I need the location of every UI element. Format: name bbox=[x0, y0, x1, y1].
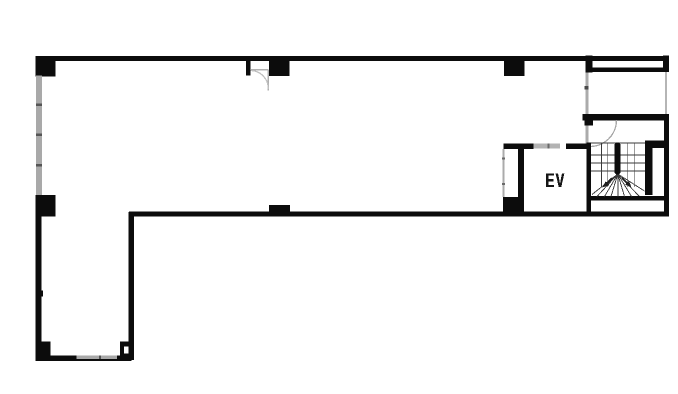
door D1 leaf bbox=[267, 70, 269, 91]
door stair swing arc bbox=[590, 120, 617, 147]
wall stair inner right bar bbox=[645, 140, 653, 195]
wall top (main, x36-669) bbox=[36, 56, 670, 61]
elevator top bar right black bbox=[566, 143, 588, 148]
window mullion tick 3 bbox=[36, 164, 42, 167]
duct tick 1 bbox=[502, 158, 505, 160]
elevator door gray segment bbox=[534, 144, 560, 149]
stair arrow left shaft bbox=[606, 178, 613, 184]
door jamb top wall bbox=[246, 60, 250, 75]
balcony right bar bbox=[663, 56, 669, 73]
notch in bottom-right pillar bbox=[124, 346, 129, 353]
block below duct bbox=[503, 197, 524, 212]
wall left lower wing bbox=[36, 217, 42, 342]
pillar wing bottom-right with notch bbox=[120, 342, 132, 362]
balcony top-right: left end block bbox=[585, 56, 592, 73]
stair arrow head left bbox=[603, 182, 610, 188]
wall stair left bbox=[587, 143, 592, 217]
block left end of stair top wall bbox=[585, 114, 594, 126]
stair arrow head right bbox=[625, 181, 631, 188]
elevator EV label (vector glyphs) bbox=[546, 173, 564, 187]
stair treads grid bbox=[591, 143, 645, 187]
tick on partition line bbox=[585, 86, 589, 90]
duct tick 2 bbox=[502, 183, 505, 185]
door D1 swing arc bbox=[251, 71, 269, 89]
wall long horizontal (y212) bbox=[129, 212, 669, 217]
wall stair bottom band bbox=[591, 196, 664, 201]
wall stair top bbox=[583, 114, 669, 121]
wall stub stair inner top-right bbox=[645, 140, 669, 148]
pillar right of top door bbox=[269, 60, 289, 76]
pillar left middle bbox=[36, 195, 56, 217]
window left wall (gray) bbox=[36, 76, 42, 196]
pillar on long wall bbox=[269, 205, 290, 212]
wall bottom of wing bbox=[36, 356, 132, 362]
pillar mid top wall (x504) bbox=[504, 60, 524, 76]
wall right of wing bbox=[129, 212, 135, 360]
window gray line right of top-right room bbox=[665, 72, 667, 114]
elevator shaft left wall bbox=[518, 149, 524, 212]
duct gray line left of elevator bbox=[503, 149, 505, 197]
balcony bottom bar bbox=[590, 67, 669, 72]
window mullion tick 2 bbox=[36, 134, 42, 137]
stair winder fan lines bbox=[592, 174, 645, 197]
wall joint tick left lower bbox=[41, 291, 43, 297]
elevator top bar left black bbox=[504, 143, 534, 148]
elevator door tick bbox=[548, 144, 550, 149]
door D1 lintel line bbox=[251, 69, 269, 71]
window mullion tick 1 bbox=[36, 104, 42, 107]
pillar bottom-left corner bbox=[36, 342, 51, 362]
window bottom mullion tick bbox=[99, 356, 101, 360]
window bottom wing (gray) bbox=[76, 356, 117, 360]
pillar top-left corner bbox=[36, 56, 56, 76]
stair arrow right shaft bbox=[622, 178, 628, 184]
wall stair right (building edge) bbox=[664, 114, 669, 217]
partition gray line right of main room bbox=[586, 61, 589, 144]
stair central newel bar bbox=[614, 143, 620, 175]
